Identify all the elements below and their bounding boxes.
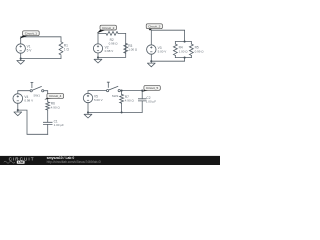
wire circuit4 top <box>18 91 48 102</box>
junction nodes circuit5 <box>87 90 143 114</box>
svg-text:Circuit_3: Circuit_3 <box>148 24 160 28</box>
CircuitLab logo <box>4 157 35 165</box>
svg-text:0.98 V: 0.98 V <box>24 99 33 103</box>
capacitor C2 <box>138 96 156 112</box>
switch SW1 <box>30 82 44 97</box>
annotation flag Circuit_5 <box>142 86 160 92</box>
annotation flag Circuit_3 <box>146 24 162 31</box>
svg-text:0.98 V: 0.98 V <box>105 49 114 53</box>
ground circuit5 <box>84 112 92 118</box>
wire circuit3 top <box>151 30 191 45</box>
capacitor C1 <box>43 119 64 134</box>
voltage source V4 <box>13 94 33 104</box>
wire circuit5 top <box>88 91 142 99</box>
wire circuit3 bottom <box>151 54 191 61</box>
svg-text:LAB: LAB <box>18 160 24 164</box>
annotation flag Circuit_1 <box>20 31 39 39</box>
svg-text:4.90 Ω: 4.90 Ω <box>125 99 135 103</box>
resistor R4 (left of parallel pair) <box>173 42 188 58</box>
resistor R5 (right of parallel pair) <box>189 42 204 58</box>
svg-text:SW1: SW1 <box>33 94 40 98</box>
attribution text <box>47 156 102 164</box>
voltage source V5 <box>83 93 102 102</box>
ground circuit2 <box>94 57 102 63</box>
junction nodes circuit3 <box>150 41 185 63</box>
svg-text:Circuit_1: Circuit_1 <box>25 31 37 35</box>
wire circuit5 bottom <box>88 103 142 113</box>
svg-text:5.00 V: 5.00 V <box>94 98 103 102</box>
svg-text:1 Ω: 1 Ω <box>64 48 70 52</box>
svg-text:4.90 Ω: 4.90 Ω <box>51 105 61 109</box>
voltage source V1 <box>16 44 32 53</box>
wire circuit1 loop <box>21 37 61 59</box>
resistor R2 (series, horizontal) <box>106 32 118 46</box>
annotation flag Circuit_4 <box>44 94 63 100</box>
svg-text:1.00 Ω: 1.00 Ω <box>179 49 189 53</box>
resistor R6 <box>46 102 61 123</box>
ground circuit1 <box>17 59 25 65</box>
svg-text:SW2: SW2 <box>112 94 119 98</box>
watermark attribution bar <box>0 156 220 165</box>
svg-text:1.00 Ω: 1.00 Ω <box>128 47 138 51</box>
annotation flag Circuit_2 <box>97 25 117 33</box>
ground circuit3 <box>147 61 155 67</box>
resistor R1 <box>58 42 70 56</box>
switch SW2 <box>107 82 121 98</box>
voltage source V2 <box>93 44 113 53</box>
resistor R3 (vertical) <box>124 43 138 53</box>
ground circuit4 <box>14 110 22 116</box>
junction node circuit2 <box>97 56 99 58</box>
svg-text:Circuit_2: Circuit_2 <box>102 26 114 30</box>
svg-text:0.98 Ω: 0.98 Ω <box>109 42 119 46</box>
junction node circuit1 <box>20 58 22 60</box>
svg-text:5.00 V: 5.00 V <box>158 50 167 54</box>
svg-text:1.00 µF: 1.00 µF <box>54 123 64 127</box>
resistor R7 <box>120 91 135 113</box>
svg-text:http://circuitlab.com/c/5zsuu7: http://circuitlab.com/c/5zsuu7469/lab-0/ <box>47 160 102 164</box>
wire circuit2 loop <box>98 33 126 57</box>
svg-text:Circuit_4: Circuit_4 <box>49 94 61 98</box>
junction node circuit4 <box>17 109 19 111</box>
wire circuit4 return <box>18 103 48 134</box>
svg-text:Circuit_5: Circuit_5 <box>146 86 158 90</box>
svg-text:0.99 Ω: 0.99 Ω <box>195 49 205 53</box>
svg-text:1.00 µF: 1.00 µF <box>146 100 156 104</box>
voltage source V3 <box>147 45 167 54</box>
